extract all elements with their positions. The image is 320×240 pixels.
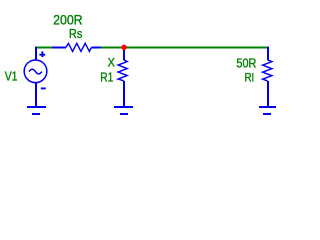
wire: main horizontal net from Rs right lead to Rl corner bbox=[101, 47, 267, 49]
svg-text:Rs: Rs bbox=[69, 26, 83, 41]
label: value 50R bbox=[236, 57, 256, 71]
ground (under R1) bbox=[114, 107, 133, 114]
voltage source V1 (sine source) bbox=[24, 47, 47, 107]
svg-text:50R: 50R bbox=[236, 57, 256, 71]
label: value 200R bbox=[53, 12, 83, 27]
svg-text:R1: R1 bbox=[100, 70, 113, 84]
svg-text:Rl: Rl bbox=[245, 70, 254, 84]
svg-text:X: X bbox=[108, 56, 115, 70]
resistor Rs (horizontal, 200R) bbox=[52, 43, 101, 51]
label: node X bbox=[108, 56, 115, 70]
wire: top-left segment from V1 corner to Rs left lead bbox=[35, 47, 52, 49]
label: ref Rl bbox=[245, 70, 254, 84]
resistor R1 (vertical) bbox=[118, 49, 127, 107]
resistor Rl (vertical, 50R load) bbox=[263, 47, 272, 107]
node X junction dot bbox=[121, 45, 126, 50]
label: ref V1 bbox=[5, 68, 18, 83]
label: ref Rs bbox=[69, 26, 83, 41]
ground (under Rl) bbox=[259, 107, 276, 114]
svg-text:V1: V1 bbox=[5, 68, 18, 83]
ground (under V1) bbox=[27, 107, 46, 114]
label: ref R1 bbox=[100, 70, 113, 84]
